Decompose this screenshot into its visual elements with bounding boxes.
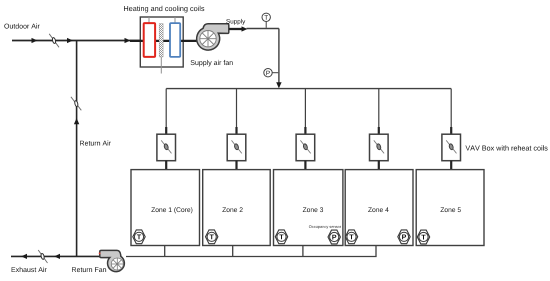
occupancy sensor P zone 4 <box>398 230 410 244</box>
arrowhead return riser up <box>74 118 79 124</box>
wire: VAV 4 outlet stub <box>378 161 380 171</box>
AHU coil box <box>140 17 183 67</box>
thermostat T zone 2 <box>206 230 218 244</box>
return fan red mark <box>99 253 101 255</box>
VAV box 4 <box>370 134 389 161</box>
wire: exhaust / return line <box>11 255 100 257</box>
sensor T (supply) <box>262 13 270 28</box>
wire: supply duct from fan <box>229 28 243 30</box>
occupancy sensor P zone 3 <box>328 230 340 244</box>
arrowhead outdoor air 3 <box>125 38 131 43</box>
arrowhead outdoor air 2 <box>67 38 73 43</box>
label Exhaust Air <box>12 267 47 272</box>
zone 4 box <box>345 170 413 246</box>
arrowhead outdoor air 1 <box>32 38 38 43</box>
damper D1 on outdoor air duct <box>49 34 59 48</box>
label VAV Box with reheat coils <box>465 145 547 150</box>
return fan U2 scroll <box>100 250 125 271</box>
wire: zone 2 return stub <box>232 246 234 257</box>
wire: VAV 1 outlet stub <box>165 161 167 171</box>
label Zone 3 <box>303 207 323 212</box>
thermostat T zone 3 <box>275 230 287 244</box>
wire: drop to VAV 4 <box>378 89 380 135</box>
wire: VAV 5 outlet stub <box>450 161 452 171</box>
coil pipe stub top left (gray) <box>148 17 150 24</box>
arrowhead riser down <box>276 82 281 88</box>
wire: return riser <box>76 41 78 257</box>
label Zone 1 (Core) <box>151 207 192 213</box>
label Occupancy sensor <box>309 225 341 229</box>
wire: drop to VAV 2 <box>236 89 238 135</box>
filter drain stub bottom (gray) <box>160 57 162 74</box>
label Outdoor Air <box>4 23 39 28</box>
wire: duct through AHU <box>130 40 197 42</box>
VAV box 5 <box>442 134 461 161</box>
wire: return manifold with zone 4 riser <box>126 246 376 257</box>
heating coil (red) <box>144 23 155 57</box>
filter (checkered) <box>159 24 163 57</box>
label Supply air fan <box>191 60 233 67</box>
thermostat T zone 4 <box>345 230 357 244</box>
arrowhead exhaust 2 <box>54 254 60 259</box>
wire: drop to VAV 3 <box>304 89 306 135</box>
zone 1 box <box>131 170 200 246</box>
thermostat T zone 5 <box>417 230 429 244</box>
supply air fan U1 wheel <box>200 31 216 47</box>
label Zone 5 <box>441 207 461 212</box>
wire: VAV 3 outlet stub <box>304 161 306 171</box>
label Zone 2 <box>222 207 242 212</box>
sensor P (supply) <box>264 69 278 77</box>
zone 2 box <box>203 170 271 246</box>
VAV box 2 <box>227 134 246 161</box>
wire: outdoor air duct <box>12 40 140 42</box>
coil pipe stub top right (gray) <box>174 17 176 24</box>
arrowhead supply duct <box>242 26 248 31</box>
zone 3 box <box>274 170 343 246</box>
supply air fan U1 scroll <box>197 24 229 50</box>
label Supply <box>226 19 245 25</box>
VAV box 3 <box>296 134 315 161</box>
wire: supply manifold <box>166 88 451 90</box>
label Heating and cooling coils <box>124 6 204 13</box>
wire: supply duct to riser <box>247 28 279 30</box>
VAV box 1 <box>157 134 176 161</box>
wire: VAV 2 outlet stub <box>235 161 237 171</box>
label Return Air <box>80 140 111 145</box>
cooling coil (blue) <box>170 23 180 57</box>
wire: drop to VAV 1 <box>165 89 167 135</box>
label Zone 4 <box>368 207 388 212</box>
damper D3 on exhaust line <box>38 250 47 263</box>
wire: drop to VAV 5 <box>450 89 452 135</box>
arrowhead exhaust 1 <box>21 254 27 259</box>
wire: zone 1 return stub <box>164 246 166 257</box>
label Return Fan <box>72 267 106 272</box>
wire: zone 3 return stub <box>302 246 304 257</box>
zone 5 box <box>416 170 484 246</box>
wire: supply riser down <box>278 29 280 84</box>
damper D2 on return riser <box>71 97 81 111</box>
return fan U2 wheel <box>111 258 123 270</box>
thermostat T zone 1 <box>133 230 145 244</box>
